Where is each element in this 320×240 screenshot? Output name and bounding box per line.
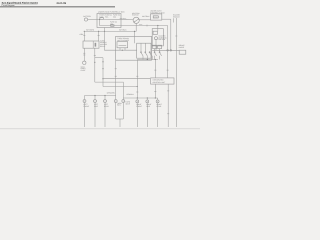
connector tick C6	[115, 68, 117, 70]
bulb filament dot	[114, 100, 117, 103]
switch output bus	[137, 59, 158, 61]
switch blade 3	[150, 53, 152, 56]
turn signal/hazard relay box	[83, 41, 99, 48]
switch blade 2 contact	[145, 52, 146, 53]
hazard warning switch box	[152, 29, 163, 46]
svg-text:SWITCH: SWITCH	[158, 38, 165, 41]
svg-text:GRN/ORN: GRN/ORN	[107, 92, 116, 95]
left lamp bus	[85, 95, 116, 97]
wire blade5 down	[159, 56, 161, 60]
wire battery to fuse box	[88, 18, 100, 20]
svg-text:DIODE: DIODE	[179, 46, 185, 49]
node bus right	[134, 31, 135, 32]
node switch feed	[122, 50, 123, 51]
bulb left front stem	[84, 96, 86, 100]
switch blade 1	[141, 53, 143, 56]
wire indicator L down	[115, 103, 117, 119]
ignition switch contact	[134, 19, 138, 22]
svg-text:WHT/BLK: WHT/BLK	[142, 15, 150, 18]
wire fuse box to hazard feed	[162, 18, 171, 20]
ignition switch pin dot 2	[137, 18, 140, 21]
ground G401	[83, 61, 86, 64]
bulb right indicator stem	[122, 98, 124, 99]
connector circle B	[170, 50, 172, 52]
wire blade4 down	[154, 56, 156, 60]
connector tick C14	[154, 69, 156, 71]
node right bus a	[137, 97, 138, 98]
wire bulb left rear down	[104, 103, 106, 127]
node bus mid	[104, 31, 105, 32]
connector tick C5	[102, 68, 104, 70]
node V103 a	[102, 61, 103, 62]
bulb right rear stem	[157, 98, 159, 100]
bulb right turn indicator	[122, 100, 125, 103]
switch blade 3 contact	[149, 52, 150, 53]
wire jumper H1	[95, 57, 103, 59]
svg-text:BATTERY: BATTERY	[83, 15, 92, 18]
wire indicator hook	[116, 118, 124, 120]
svg-text:SWITCH: SWITCH	[132, 14, 139, 17]
wire bus to relay right	[98, 31, 100, 41]
wire left output down	[115, 60, 117, 95]
bulb right front stem	[136, 98, 138, 100]
bulb right side turn signal	[146, 100, 149, 103]
title underline	[1, 3, 38, 5]
connector tick VR	[175, 35, 177, 37]
svg-text:REAR: REAR	[157, 105, 162, 108]
under-hood fuse/relay box	[97, 14, 121, 28]
wire inside box down	[100, 19, 168, 25]
svg-text:FUSE 26: FUSE 26	[154, 17, 160, 19]
connector tick C15	[146, 25, 148, 27]
node V103 b	[102, 78, 103, 79]
node H4 join	[137, 86, 138, 87]
bulb left front turn signal	[83, 100, 86, 103]
wire bulb left front down	[84, 103, 86, 127]
hazard switch contact box	[153, 31, 157, 34]
turn signal contact box	[137, 43, 151, 58]
wire indicator R down	[122, 103, 124, 119]
wire H4	[103, 86, 137, 88]
node output bus a	[147, 59, 148, 60]
wire blade2 down	[146, 56, 148, 60]
svg-text:WHT/BLK: WHT/BLK	[119, 29, 127, 32]
wire relay feed	[105, 49, 137, 51]
fuse FUSE36 body	[111, 25, 114, 27]
svg-text:UNDER-HOOD FUSE/RELAY BOX: UNDER-HOOD FUSE/RELAY BOX	[98, 11, 125, 14]
switch blade 1 contact	[141, 52, 142, 53]
bulb left rear stem	[104, 96, 106, 100]
bulb filament dot	[94, 100, 97, 103]
bulb right front turn signal	[136, 100, 139, 103]
svg-text:IND R: IND R	[125, 102, 130, 105]
flasher pin stub 1	[119, 48, 121, 50]
wire bulb right side down	[146, 103, 148, 127]
bulb filament dot	[146, 100, 149, 103]
under-dash fuse/relay box	[151, 14, 162, 20]
connector tick C9	[136, 91, 138, 93]
wire bus to relay left	[83, 31, 85, 41]
flasher unit internal	[119, 45, 127, 47]
wire blade1 down	[142, 56, 144, 60]
bulb right side stem	[146, 98, 148, 100]
wire blade5 up	[159, 49, 161, 52]
wire blade4 up	[154, 49, 156, 52]
connector tick C13	[167, 69, 169, 71]
wire ignition to under-dash fuse	[139, 19, 150, 21]
switch blade 5 contact	[159, 52, 160, 53]
connector tick C1	[83, 35, 85, 37]
hazard connector box L	[153, 45, 157, 48]
wire feed V104	[104, 28, 106, 51]
svg-text:RELAY: RELAY	[100, 45, 106, 48]
node relay output	[94, 62, 95, 63]
connector tick C2	[98, 35, 100, 37]
svg-text:IND L: IND L	[117, 104, 121, 107]
connector tick C8	[136, 75, 138, 77]
wire ICU feed down	[154, 60, 156, 78]
bulb filament dot	[122, 100, 125, 103]
bulb right rear turn signal	[156, 100, 159, 103]
wire blade2 up	[144, 43, 146, 52]
bulb filament dot	[104, 100, 107, 103]
bus hot wire y31	[84, 30, 136, 32]
wire ICU drop 2	[175, 18, 177, 127]
hazard bus	[152, 49, 179, 51]
right lamp bus	[123, 97, 157, 99]
header rule	[0, 6, 115, 8]
wire blade3 down	[151, 56, 153, 60]
node output bus b	[155, 59, 156, 60]
connector tick C16	[154, 91, 156, 93]
bulb filament dot	[136, 100, 139, 103]
switch blade 5	[160, 53, 162, 56]
wire H2 to control unit	[103, 78, 150, 80]
wire bulb right front down	[136, 103, 138, 127]
node right bus c	[155, 97, 156, 98]
ignition switch pin dot 1	[133, 20, 136, 23]
node bus corner	[84, 31, 85, 32]
relay coil mark	[95, 43, 97, 47]
bulb left side turn signal	[94, 100, 97, 103]
relay divider	[92, 41, 94, 48]
connector circle A	[167, 50, 169, 52]
node hazard tap	[157, 25, 158, 26]
wire indicator common down	[119, 119, 121, 127]
bulb filament dot	[83, 100, 86, 103]
bulb filament dot	[156, 100, 159, 103]
svg-text:CONTROL UNIT: CONTROL UNIT	[153, 81, 166, 84]
svg-text:23-O-05: 23-O-05	[57, 2, 67, 5]
wire V175	[173, 18, 175, 22]
wire ICU drop 1	[167, 84, 169, 127]
wire hazard tap down	[157, 26, 159, 32]
fuse FUSE1	[100, 18, 103, 20]
node left bus a	[94, 95, 95, 96]
wire hazard feed down	[170, 19, 172, 50]
node battery feed	[99, 19, 100, 20]
wire blade1 up	[140, 43, 142, 52]
bulb left rear turn signal	[104, 100, 107, 103]
node right bus b	[147, 97, 148, 98]
wire bulb left side down	[94, 103, 96, 127]
wire hazard right leg	[167, 26, 169, 78]
bulb left side stem	[94, 96, 96, 100]
wire right output down	[136, 60, 138, 99]
wire relay output down	[94, 48, 96, 82]
wire bulb right rear down	[157, 103, 159, 127]
wire fuse1 to ignition switch	[103, 18, 133, 20]
svg-text:GRN/BLU: GRN/BLU	[126, 93, 134, 96]
flasher pin stub 2	[124, 48, 126, 50]
wire ignition stem down	[135, 23, 137, 31]
bulb left indicator stem	[115, 96, 117, 100]
svg-text:WHT/GRN: WHT/GRN	[86, 29, 95, 32]
wire V103	[102, 58, 104, 87]
combination switch box	[116, 36, 152, 60]
connector tick C10	[167, 90, 169, 92]
node left bus b	[104, 95, 105, 96]
node bus left	[98, 31, 99, 32]
switch blade 4 contact	[154, 52, 155, 53]
connector tick C3	[83, 52, 85, 54]
wire relay to ground	[83, 48, 85, 61]
connector tick C11	[167, 113, 169, 115]
battery B1	[84, 18, 87, 21]
wire hazard bulb stem	[155, 40, 157, 51]
wire H3 to right bus	[95, 82, 124, 98]
wire switch feed down	[134, 31, 136, 43]
connector tick C7	[115, 75, 117, 77]
wire ICU drop 3	[154, 84, 156, 98]
integrated control unit box	[151, 78, 174, 84]
fuse FUSE26 body	[153, 16, 158, 18]
diode box	[179, 50, 186, 54]
ignition switch SW1	[133, 17, 139, 23]
hazard connector box R	[158, 45, 162, 48]
connector tick C4	[83, 54, 85, 56]
svg-text:Circuit Diagram: Circuit Diagram	[2, 4, 15, 7]
bulb left turn indicator	[114, 100, 117, 103]
switch blade 4	[155, 53, 157, 56]
bottom page rule	[0, 128, 200, 130]
hazard switch bulb	[155, 37, 158, 40]
svg-text:REAR: REAR	[104, 105, 109, 108]
svg-text:SWITCH: SWITCH	[173, 16, 180, 19]
switch blade 2	[145, 53, 147, 56]
flasher unit box	[117, 42, 128, 48]
connector tick C12	[94, 55, 96, 57]
